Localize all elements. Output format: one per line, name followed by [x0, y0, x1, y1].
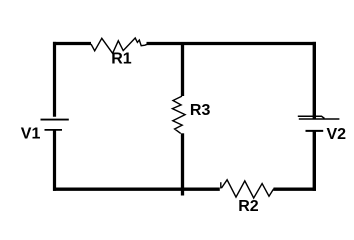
wire left upper — [53, 42, 56, 117]
resistor R2 — [221, 180, 274, 198]
battery V2 positive plate upper stroke — [298, 116, 325, 118]
wire bottom-left segment — [53, 188, 220, 191]
svg-text:V2: V2 — [327, 126, 347, 143]
battery V2 negative plate — [306, 130, 324, 132]
wire bottom-right segment — [274, 188, 317, 191]
wire top-left segment — [53, 42, 91, 45]
battery V1 negative plate — [45, 129, 63, 131]
wire top-right segment — [147, 42, 317, 45]
resistor R3 — [172, 96, 185, 133]
wire middle lower — [181, 133, 184, 195]
wire left lower — [53, 130, 56, 191]
svg-text:R3: R3 — [190, 102, 211, 119]
wire right upper — [313, 42, 316, 119]
svg-text:R1: R1 — [111, 51, 132, 68]
svg-text:V1: V1 — [21, 125, 41, 142]
battery V2 positive plate lower stroke — [299, 118, 340, 120]
svg-text:R2: R2 — [238, 198, 259, 215]
wire right lower — [313, 132, 316, 191]
battery V1 positive plate — [41, 119, 69, 121]
resistor R1 — [91, 38, 147, 53]
wire middle upper — [181, 42, 184, 96]
